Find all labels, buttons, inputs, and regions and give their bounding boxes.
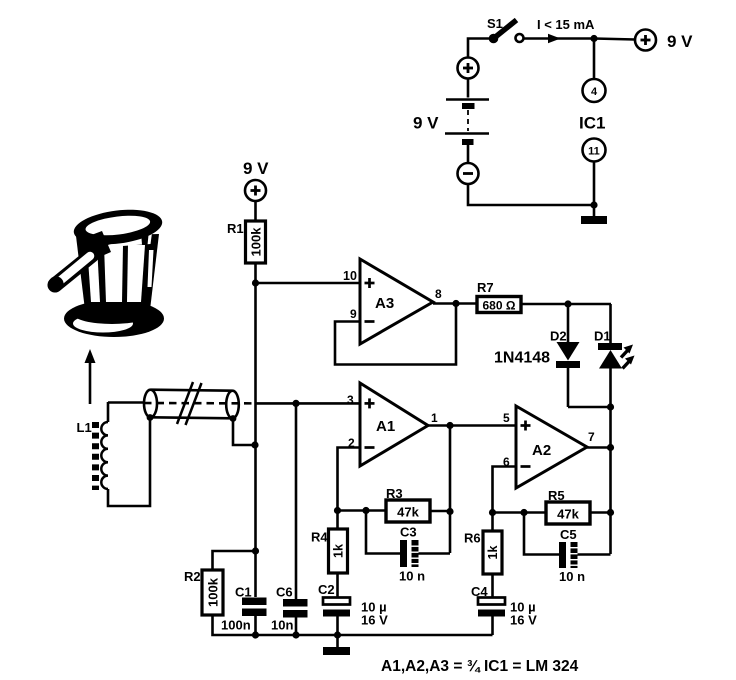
resistor R1 [246,221,266,263]
wire L1 bottom to cable shield [108,418,150,506]
svg-text:R4: R4 [311,530,328,545]
svg-text:100k: 100k [206,577,221,607]
svg-text:11: 11 [588,146,600,158]
wire junction down to C6 [295,403,298,599]
wire R1 to node [254,263,257,283]
svg-text:C2: C2 [318,582,335,597]
wire output node down to R5/C5 [609,448,612,555]
wire output down to R3 [449,426,452,554]
body (black with white stripes) [76,234,159,310]
wire C2 to rail [336,617,339,648]
node A1 output [446,422,453,429]
wire A2 feedback node to R5 [493,511,547,514]
svg-text:4: 4 [591,86,598,98]
wire supply to R1 [254,201,257,221]
svg-text:A1,A2,A3 = ¾ IC1 = LM 324: A1,A2,A3 = ¾ IC1 = LM 324 [381,658,579,675]
svg-text:47k: 47k [397,505,419,520]
svg-text:C4: C4 [471,584,488,599]
wire R2 top to reference [213,551,256,570]
cable break slashes [177,382,202,425]
node C3 left tap [362,507,369,514]
wire C6 to rail [295,618,298,636]
wire node to A3 + input [256,282,361,285]
node A1 input / C6 junction [292,400,299,407]
capacitor C3 [400,540,419,567]
wire D2 bottom across to D1 [568,406,611,409]
svg-text:D2: D2 [550,329,567,344]
svg-text:1N4148: 1N4148 [494,350,550,367]
shield terminal dot right [230,415,237,422]
capacitor C1 [242,598,267,617]
battery positive terminal circle [458,58,479,79]
ground battery section [581,216,607,224]
svg-text:1: 1 [431,411,438,425]
battery negative terminal circle [458,163,479,184]
wire C5 left [524,513,559,555]
wire A3 output [433,302,477,305]
wire C5 right [578,553,611,556]
svg-text:C6: C6 [276,585,293,600]
svg-text:R7: R7 [477,280,494,295]
svg-text:3: 3 [347,393,354,407]
wire C4 to rail [491,617,494,636]
wire switch to supply node with current arrow [524,37,595,40]
svg-text:5: 5 [503,411,510,425]
svg-text:16 V: 16 V [361,613,388,628]
wire A2 output [587,446,611,449]
ground under C2 [323,647,350,655]
wire R4 top [336,511,339,530]
wire cable to A1 non-inverting input [258,402,360,405]
svg-text:R1: R1 [227,221,244,236]
svg-text:9 V: 9 V [413,114,439,133]
cable centre conductor (dashed) [144,402,258,405]
wire pin 11 down to ground rail [593,162,596,217]
svg-text:R6: R6 [464,531,481,546]
svg-text:C3: C3 [400,525,417,540]
node C1 rail junction [252,631,259,638]
diode D2 [556,304,580,407]
wire shield to reference line [233,419,255,446]
capacitor C4 (electrolytic) [478,598,505,617]
node reference at R1 bottom [252,279,259,286]
pin 11 circle [583,139,606,162]
capacitor C6 [283,599,308,618]
node R2 tap [252,547,259,554]
shielded cable [144,390,239,419]
svg-text:R5: R5 [548,488,565,503]
shield terminal dot left [147,414,154,421]
wire feedback node to R3 [338,509,387,512]
supply terminal circle + right [635,30,656,51]
op-amp A1 [360,383,428,466]
LED light arrows [621,345,635,369]
base suction cup [64,300,164,337]
rim lower highlight [89,233,152,248]
svg-text:1k: 1k [332,544,346,558]
resistor R6 [483,531,502,574]
wire R4 to C2 [336,573,339,597]
wire L1 top to cable [108,401,145,404]
svg-text:10 n: 10 n [559,569,585,584]
svg-text:10: 10 [343,269,357,283]
svg-text:C1: C1 [235,585,252,600]
wire R6 top [491,513,494,532]
svg-text:1k: 1k [486,546,500,560]
battery 9V cells [445,79,489,164]
svg-text:A3: A3 [375,295,394,312]
wire C3 left [366,511,400,554]
node D2 top [564,300,571,307]
svg-text:9 V: 9 V [667,32,693,51]
inductive pickup illustration [48,205,164,337]
reference vertical wire [254,283,257,597]
resistor R4 [329,529,348,573]
wire C3 right [419,552,451,555]
node battery return junction [590,201,597,208]
resistor R7 [477,297,521,313]
top rim ring [72,205,164,249]
handle rod [55,255,92,285]
svg-text:IC1: IC1 [579,114,605,133]
node C2 rail junction [334,631,341,638]
svg-text:C5: C5 [560,527,577,542]
svg-text:A2: A2 [532,442,551,459]
op-amp A2 [516,406,587,488]
resistor R2 [202,570,223,615]
svg-text:16 V: 16 V [510,613,537,628]
svg-text:680 Ω: 680 Ω [483,299,516,313]
resistor R3 [386,500,430,522]
node shield/reference junction [251,441,258,448]
handle attachment [78,231,111,262]
capacitor C2 (electrolytic) [323,598,350,617]
wire supply node down to pin 4 [593,39,596,80]
wire C1 to rail [254,616,257,635]
svg-text:I < 15 mA: I < 15 mA [537,17,595,32]
wire R2 bottom to rail [213,615,493,635]
svg-text:L1: L1 [77,420,92,435]
node A2 output [607,444,614,451]
node supply junction [590,35,597,42]
node R5 right [607,509,614,516]
wire battery + to switch [468,39,489,58]
wire A1 output to A2 [428,424,516,427]
LED D1 [598,304,622,448]
svg-text:S1: S1 [487,16,503,31]
wire A3 feedback [335,304,456,365]
pin 4 circle [583,79,606,102]
svg-text:A1: A1 [376,418,395,435]
wire A2 inverting input [493,467,517,513]
inductor L1 [96,402,109,505]
svg-text:100n: 100n [221,618,251,633]
node C5 left tap [520,509,527,516]
svg-text:8: 8 [435,287,442,301]
node C6 rail junction [292,631,299,638]
svg-text:D1: D1 [594,329,611,344]
wire battery - to ground node [468,184,594,205]
wire R6 to C4 [491,574,494,597]
node A3 output [452,300,459,307]
op-amp A3 [360,259,433,344]
svg-text:7: 7 [588,430,595,444]
wire R3 right [430,510,450,513]
node diode bottom junction [607,403,614,410]
svg-text:47k: 47k [557,507,579,522]
wire R5 right [590,511,611,514]
node A1 feedback [334,507,341,514]
svg-text:10 n: 10 n [399,569,425,584]
wire R7 to diodes [521,303,611,306]
svg-text:9: 9 [350,307,357,321]
capacitor C5 [559,542,578,568]
wire to 9V terminal [594,39,635,40]
node R3 right [446,508,453,515]
svg-text:9 V: 9 V [243,159,269,178]
svg-text:R2: R2 [184,569,201,584]
arrow pointing to pickup [89,362,92,404]
svg-text:10n: 10n [271,618,293,633]
wire A1 inverting input [338,448,361,511]
node A2 feedback [489,509,496,516]
svg-text:100k: 100k [249,227,264,257]
supply terminal circle + above R1 [245,180,266,201]
switch S1 [489,20,524,43]
svg-text:R3: R3 [386,486,403,501]
resistor R5 [546,502,590,524]
